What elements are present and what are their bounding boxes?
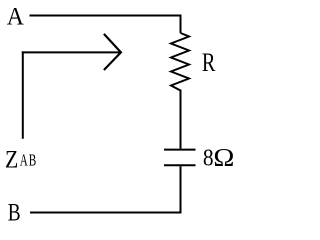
capacitor top plate <box>164 149 196 151</box>
wire: terminal A to top-right corner and down to resistor <box>30 16 181 34</box>
svg-text:A: A <box>7 3 25 31</box>
arrow: Z_AB looking direction <box>22 51 121 53</box>
svg-text:R: R <box>202 49 216 78</box>
wire: left vertical probe line <box>22 51 24 138</box>
resistor R <box>171 33 189 91</box>
capacitor bottom plate <box>164 164 196 166</box>
svg-text:B: B <box>29 152 36 171</box>
svg-text:A: A <box>20 152 29 171</box>
svg-text:Ω: Ω <box>213 143 234 171</box>
wire: resistor to capacitor <box>180 90 182 149</box>
arrowhead <box>104 34 121 70</box>
svg-text:B: B <box>8 198 21 226</box>
wire: capacitor to bottom-right corner and left to terminal B <box>30 166 181 212</box>
svg-text:Z: Z <box>5 146 18 174</box>
svg-text:8: 8 <box>203 143 214 171</box>
